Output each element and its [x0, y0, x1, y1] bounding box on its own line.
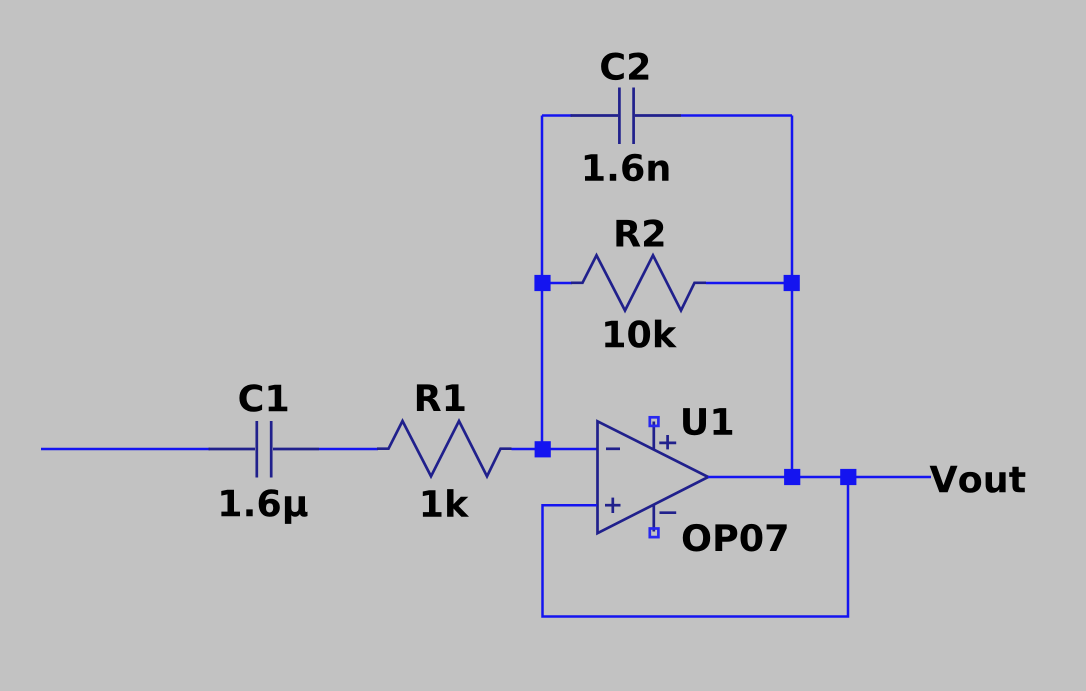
V+ plus marker	[659, 435, 676, 449]
value 1.6µ	[221, 489, 307, 524]
label U1	[683, 408, 732, 435]
junction R2 right	[784, 275, 800, 291]
wire R2 left stub	[542, 282, 572, 285]
resistor R2	[571, 255, 706, 310]
wire input left segment	[41, 448, 210, 451]
wire top left segment	[542, 114, 572, 117]
wire right vertical branch	[791, 116, 794, 478]
wire left vertical branch	[541, 116, 544, 450]
wire top right segment	[681, 114, 792, 117]
junction output node	[784, 469, 800, 485]
junction input node	[535, 441, 551, 457]
node Vout	[930, 466, 1026, 493]
value OP07	[683, 524, 787, 552]
capacitor C1	[209, 421, 320, 478]
label C1	[239, 384, 287, 412]
capacitor C2	[571, 88, 682, 145]
pin V+	[650, 417, 659, 449]
V- minus marker	[660, 511, 677, 514]
label R1	[417, 384, 465, 411]
value 10k	[605, 320, 677, 348]
wire R2 right stub	[706, 282, 792, 285]
value 1.6n	[585, 154, 669, 182]
label R2	[616, 219, 663, 246]
wire R1 to input node	[512, 448, 543, 451]
resistor R1	[377, 421, 512, 476]
value 1k	[423, 489, 469, 517]
wire feedback loop	[543, 477, 849, 617]
pin V-	[650, 505, 659, 537]
wire C1 to R1	[319, 448, 378, 451]
label C2	[601, 53, 648, 81]
junction R2 left	[534, 275, 550, 291]
wire output	[708, 476, 931, 479]
wire inverting input	[550, 448, 597, 451]
op-amp U1	[598, 421, 709, 533]
junction Vout node	[840, 469, 856, 485]
